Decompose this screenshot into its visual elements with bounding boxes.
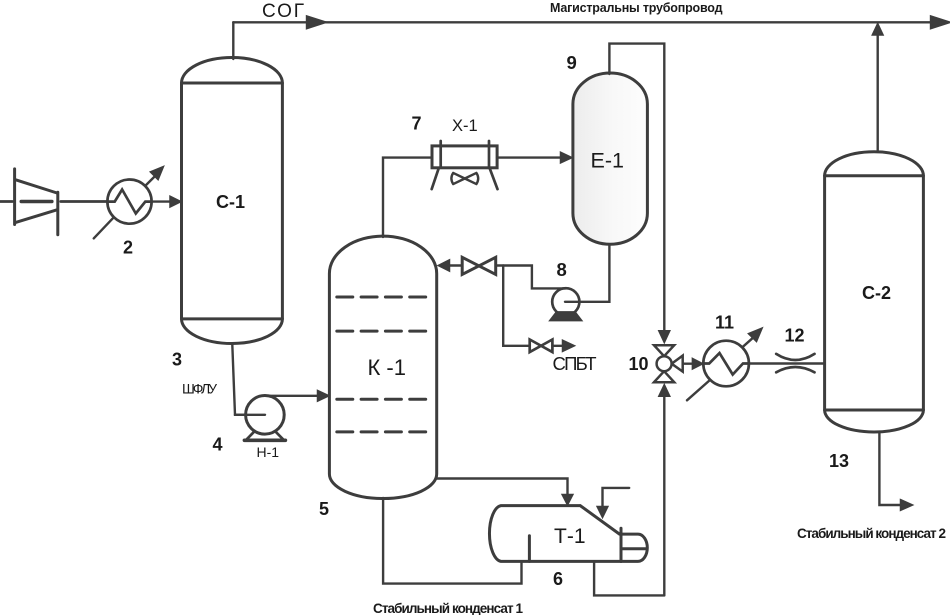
svg-text:Т-1: Т-1 [554, 525, 586, 548]
wire SPBT arrow [552, 340, 574, 351]
svg-text:13: 13 [829, 451, 849, 471]
reboiler T-1 [489, 506, 647, 562]
pump H-1 [235, 396, 285, 441]
heat exchanger 11 [687, 328, 762, 400]
heat exchanger 2 [94, 167, 164, 239]
label K-1 [368, 355, 407, 380]
vessel C-2 [825, 152, 924, 432]
wire HX2 to C-1 with arrowhead [152, 196, 181, 207]
wire mixer to HX11 with arrowhead [683, 358, 703, 369]
label 12 [785, 326, 805, 346]
wire magistral pipeline [233, 21, 941, 23]
wire E-1 top to mixer riser [609, 44, 664, 331]
label 9 [567, 52, 577, 73]
label C-2 [862, 283, 891, 303]
svg-text:Е-1: Е-1 [591, 149, 624, 173]
svg-text:6: 6 [553, 569, 563, 589]
wire C-2 top to pipeline with arrowhead [872, 24, 883, 152]
pump 8 [550, 288, 582, 320]
wire K-1 bottom to T-1 [383, 498, 521, 584]
label C-1 [216, 192, 245, 212]
svg-text:Стабильный конденсат 1: Стабильный конденсат 1 [373, 601, 523, 615]
svg-text:9: 9 [567, 52, 577, 73]
tray 4 [337, 430, 431, 433]
label X-1 [452, 117, 478, 135]
wire T-1 outlet to mixer riser [594, 561, 664, 595]
wire X-1 to E-1 with arrowhead [497, 152, 572, 163]
restriction 12 [776, 354, 814, 372]
svg-text:7: 7 [412, 114, 422, 134]
svg-text:Х-1: Х-1 [452, 117, 478, 135]
valve SPBT [530, 340, 553, 353]
label Магистральны трубопровод [550, 1, 723, 15]
compressor inlet symbol [0, 169, 108, 235]
wire C-1 bottom to pump H-1 [232, 345, 265, 415]
arrowhead mid pipeline [307, 17, 325, 29]
wire pump H-1 to K-1 with arrowhead [265, 390, 329, 401]
wire to SPBT branch [503, 266, 530, 346]
label Стабильный конденсат 2 [797, 526, 946, 541]
arrowhead into K-1 reflux [438, 260, 449, 271]
label 2 [123, 238, 133, 258]
label T-1 [554, 525, 586, 548]
svg-text:10: 10 [629, 354, 649, 374]
label 11 [715, 313, 734, 333]
valve reflux [462, 257, 496, 274]
column K-1 [329, 236, 436, 498]
svg-text:12: 12 [785, 326, 805, 346]
label 4 [213, 435, 223, 455]
svg-text:С-1: С-1 [216, 192, 245, 212]
wire pump 8 outlet [496, 266, 566, 289]
svg-text:К -1: К -1 [368, 355, 407, 380]
label 5 [319, 499, 329, 519]
label СПБТ [553, 353, 597, 374]
tray 2 [337, 330, 431, 333]
arrowhead into mixer bottom [659, 385, 670, 397]
svg-text:11: 11 [715, 313, 734, 333]
air cooler X-1 [432, 141, 498, 189]
label Н-1 [257, 444, 280, 460]
svg-text:С-2: С-2 [862, 283, 891, 303]
arrowhead into mixer top [659, 331, 670, 343]
tray 1 [337, 296, 431, 299]
label ШФЛУ [182, 381, 217, 397]
svg-text:2: 2 [123, 238, 133, 258]
label 6 [553, 569, 563, 589]
wire bottom riser to mixer [663, 396, 665, 595]
wire K-1 top to X-1 [383, 158, 432, 237]
label Стабильный конденсат 1 [373, 601, 523, 615]
label СОГ [262, 1, 304, 22]
vessel C-1 [182, 58, 283, 344]
label 7 [412, 114, 422, 134]
wire reflux [449, 264, 463, 266]
wire HX11 to C-2 [749, 362, 825, 364]
svg-text:СОГ: СОГ [262, 1, 304, 22]
svg-text:Н-1: Н-1 [257, 444, 280, 460]
wire C-1 top outlet [232, 22, 234, 59]
label 10 [629, 354, 649, 374]
label 13 [829, 451, 849, 471]
svg-text:Стабильный конденсат 2: Стабильный конденсат 2 [797, 526, 946, 541]
mixer 10 [654, 345, 683, 382]
svg-text:4: 4 [213, 435, 223, 455]
svg-text:5: 5 [319, 499, 329, 519]
wire E-1 bottom to pump 8 [579, 245, 609, 302]
wire K-1 side outlet to T-1 with arrowhead [437, 479, 573, 506]
svg-text:ШФЛУ: ШФЛУ [182, 381, 217, 397]
vessel E-1 [573, 73, 648, 244]
arrowhead pipeline end [931, 17, 949, 29]
svg-text:8: 8 [557, 259, 567, 280]
svg-text:Магистральны трубопровод: Магистральны трубопровод [550, 1, 723, 15]
label E-1 [591, 149, 624, 173]
svg-text:3: 3 [172, 350, 182, 370]
tray 3 [337, 398, 431, 401]
label 8 [557, 259, 567, 280]
wire stub arrow into T-1 [597, 488, 629, 518]
svg-text:СПБТ: СПБТ [553, 353, 597, 374]
label 3 [172, 350, 182, 370]
wire C-2 bottom outlet with arrowhead [879, 433, 912, 511]
